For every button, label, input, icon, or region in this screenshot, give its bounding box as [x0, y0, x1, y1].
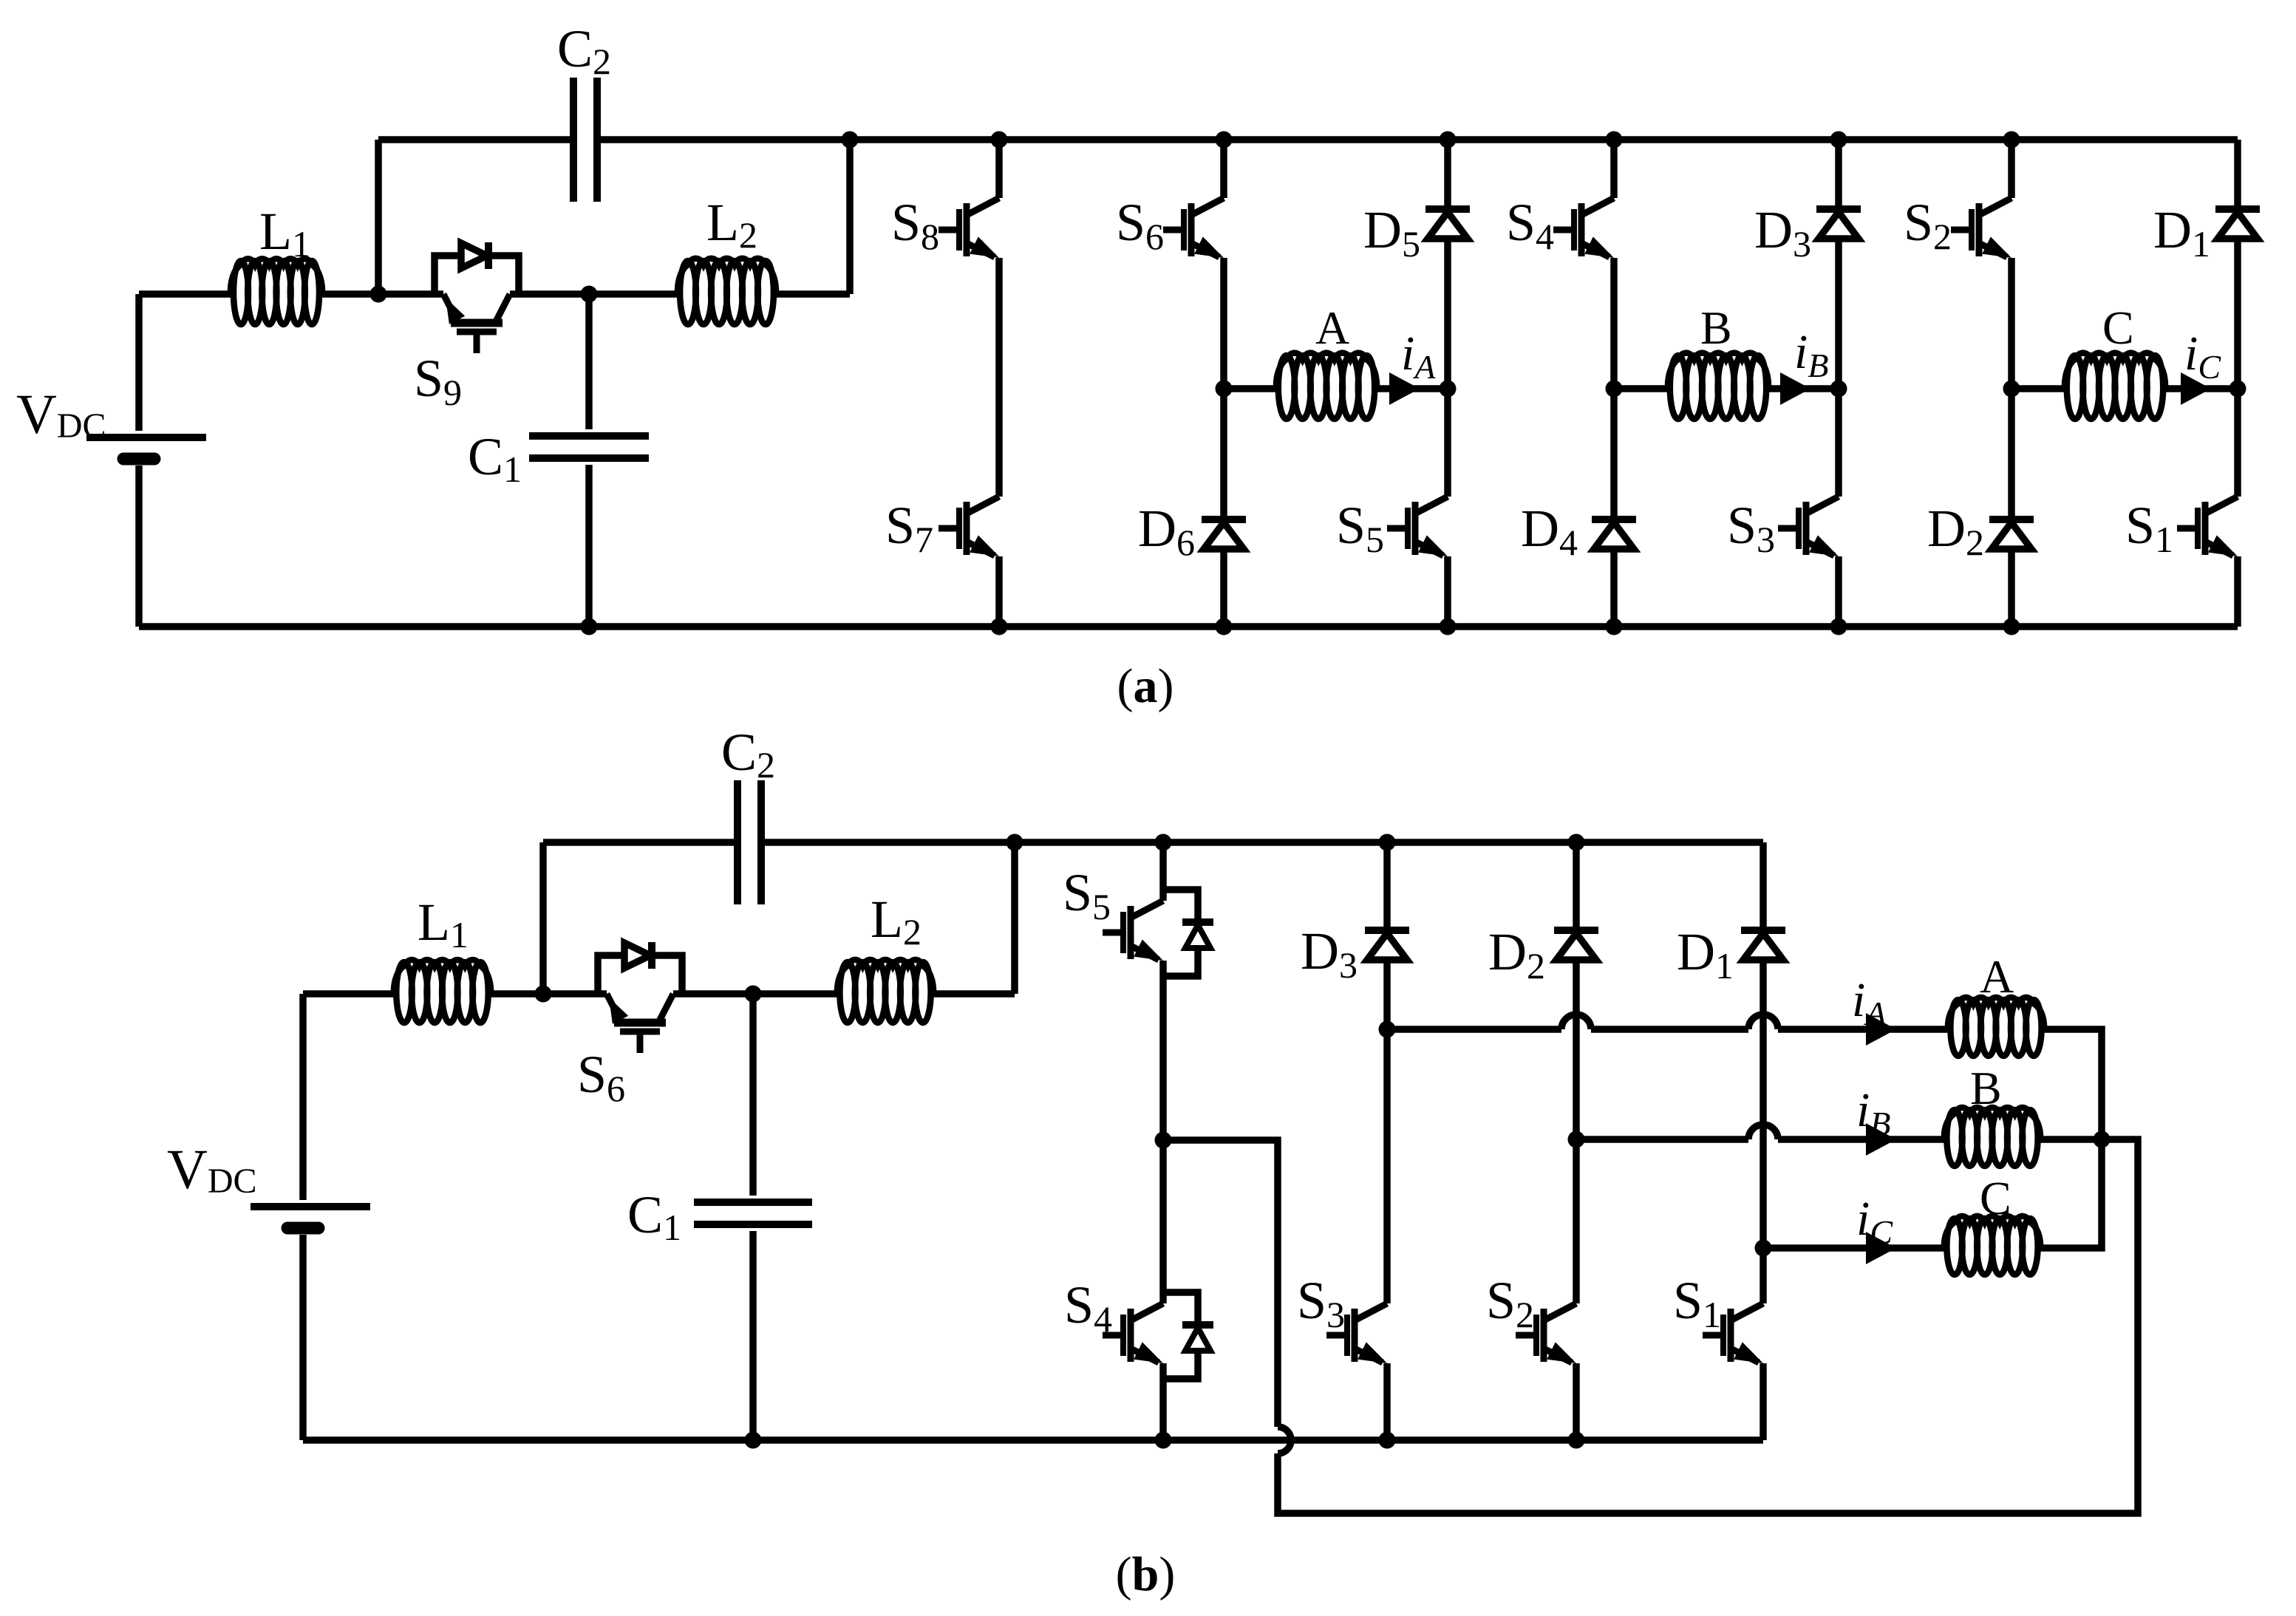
- wire: C2 left branch vertical: [375, 140, 382, 294]
- wire: mid rail L1 to S9: [322, 290, 443, 298]
- wire: return path bottom: [1278, 1139, 2138, 1513]
- wire: S4 emitter to bottom rail: [1159, 1363, 1167, 1440]
- wire: L2 to right branch: [776, 290, 850, 298]
- wire: phase A row: [1224, 385, 1448, 392]
- wire: leg D5/S5 segments: [1444, 140, 1451, 627]
- wire: phase C row: [2011, 385, 2238, 392]
- svg-text:A: A: [1980, 950, 2014, 1003]
- diode D3 (a): [1754, 200, 1861, 265]
- transistor S3 (b): [1297, 1271, 1387, 1363]
- node: S7 bottom rail: [991, 618, 1008, 635]
- node: S5 top bus: [1155, 834, 1172, 851]
- wire: figure (b) top bus: [543, 839, 1763, 846]
- wire: leg D3/S3 segments: [1835, 140, 1842, 627]
- transistor S1 (a): [2125, 496, 2238, 560]
- inductor L1 (b): [394, 893, 491, 1023]
- wire: leg D1/S1 segments: [2234, 140, 2241, 627]
- transistor S2: [1904, 193, 2011, 258]
- capacitor C1 (b): [627, 994, 812, 1440]
- wire: (b) L2 to right branch: [933, 990, 1015, 998]
- wire: phase B row with hop: [1576, 1125, 1944, 1139]
- node: phase common join: [2094, 1131, 2111, 1148]
- transistor S1 (b): [1673, 1271, 1763, 1363]
- node: S4 bottom rail: [1155, 1432, 1172, 1449]
- diode D1 (a): [2153, 200, 2260, 265]
- wire: phase B to common node: [2040, 1136, 2102, 1143]
- svg-text:C: C: [1980, 1172, 2011, 1224]
- wire: (b) mid rail L1 to S6: [491, 990, 607, 998]
- current arrow iB (b): [1856, 1083, 1896, 1156]
- node: phase C right: [2229, 381, 2246, 398]
- diode D6: [1138, 499, 1246, 563]
- node: S8 top bus: [991, 132, 1008, 149]
- diode D2 (a): [1927, 499, 2034, 563]
- wire: hop over bottom rail: [1278, 1427, 1291, 1453]
- current arrow iA: [1389, 327, 1436, 405]
- node: D6 bottom rail: [1216, 618, 1233, 635]
- transistor S8: [891, 193, 999, 258]
- inductor L2: [678, 193, 776, 324]
- node: phase C left: [2003, 381, 2020, 398]
- current arrow iB: [1780, 325, 1828, 405]
- node: (b) S6 / C1 junction: [745, 986, 762, 1003]
- diode of S5 (antiparallel): [1163, 890, 1213, 976]
- wire: S5 emitter to midpoint node: [1159, 961, 1167, 1140]
- transistor S4: [1506, 193, 1614, 258]
- capacitor C1: [468, 294, 649, 627]
- node: S6 top bus: [1216, 132, 1233, 149]
- inductor L1: [231, 202, 322, 324]
- diode D4: [1521, 499, 1636, 563]
- node: S3 bottom rail: [1379, 1432, 1396, 1449]
- phase winding B: [1668, 301, 1768, 419]
- phase winding A (b): [1948, 950, 2044, 1056]
- wire: midpoint branch to return: [1163, 1140, 1278, 1427]
- svg-text:(b): (b): [1116, 1547, 1176, 1601]
- node: (b) L1 / C2 branch junction: [535, 986, 552, 1003]
- node: phase A right: [1440, 381, 1457, 398]
- node: phase C tap: [1755, 1240, 1772, 1257]
- node: S5/S4 midpoint: [1155, 1132, 1172, 1149]
- node: phase B tap: [1568, 1131, 1585, 1148]
- wire: S5 leg from top bus: [1159, 842, 1167, 901]
- inductor L2 (b): [837, 890, 933, 1023]
- wire: leg D3/S3 segments: [1383, 842, 1391, 1440]
- phase winding B (b): [1944, 1062, 2040, 1166]
- wire: leg S4/D4 segments: [1610, 140, 1618, 627]
- svg-text:B: B: [1700, 301, 1732, 354]
- diode D3 (b): [1301, 921, 1409, 986]
- phase winding C: [2065, 301, 2165, 419]
- caption (b): [1116, 1547, 1176, 1601]
- wire: S4 collector wire: [1159, 1140, 1167, 1303]
- diode D2 (b): [1488, 922, 1598, 986]
- current arrow iA (b): [1852, 973, 1896, 1046]
- node: D5 top bus: [1440, 132, 1457, 149]
- node: S4 top bus: [1606, 132, 1623, 149]
- node: S3 bottom rail: [1830, 618, 1847, 635]
- node: S2 top bus: [2003, 132, 2020, 149]
- transistor S5 (b): [1063, 863, 1163, 961]
- wire: L2 (b) right branch vertical: [1011, 842, 1018, 994]
- wire: phase A return: [2044, 1029, 2102, 1139]
- battery VDC: [16, 294, 206, 627]
- wire: (b) mid rail left: [303, 990, 394, 998]
- node: D3 top bus: [1830, 132, 1847, 149]
- wire: figure (a) bottom rail: [139, 623, 2238, 630]
- node: phase A tap: [1379, 1021, 1396, 1038]
- svg-text:B: B: [1970, 1062, 2002, 1114]
- wire: figure (b) bottom rail: [303, 1436, 1763, 1444]
- transistor S5: [1336, 496, 1448, 560]
- transistor S4 (b): [1064, 1275, 1163, 1363]
- node: phase A left: [1216, 381, 1233, 398]
- node: (b) top bus / L2 branch: [1006, 834, 1023, 851]
- wire: phase C return: [2040, 1139, 2102, 1248]
- wire: phase C row: [1763, 1244, 1944, 1252]
- wire: mid rail left: [139, 290, 231, 298]
- diode of S4 (antiparallel): [1163, 1292, 1213, 1379]
- transistor S6: [1116, 193, 1224, 258]
- transistor S2 (b): [1486, 1271, 1576, 1363]
- node: S5 bottom rail: [1440, 618, 1457, 635]
- current arrow iC (b): [1856, 1192, 1896, 1264]
- node: D2 top bus: [1568, 834, 1585, 851]
- wire: leg D1/S1 segments: [1760, 842, 1767, 1440]
- wire: leg D2/S2 segments: [1573, 842, 1580, 1440]
- caption (a): [1117, 659, 1174, 713]
- node: S2 bottom rail: [1568, 1432, 1585, 1449]
- node: top bus / L2 branch: [842, 132, 859, 149]
- svg-text:C: C: [2102, 301, 2134, 354]
- transistor S3 (a): [1727, 496, 1839, 560]
- node: phase B left: [1606, 381, 1623, 398]
- wire: C2 right branch vertical: [846, 140, 854, 294]
- svg-text:A: A: [1315, 301, 1349, 354]
- diode D1 (b): [1677, 922, 1785, 986]
- wire: figure (a) top bus: [378, 136, 2238, 143]
- node: L1 / C2 branch junction: [370, 286, 387, 303]
- node: D2 bottom rail: [2003, 618, 2020, 635]
- node: D3 top bus: [1379, 834, 1396, 851]
- node: D4 bottom rail: [1606, 618, 1623, 635]
- transistor S6 (b) with antiparallel diode: [577, 942, 682, 1109]
- node: phase B right: [1830, 381, 1847, 398]
- node: C1 bottom rail junction: [581, 618, 598, 635]
- node: C1 (b) bottom rail junction: [745, 1432, 762, 1449]
- wire: phase B row: [1614, 385, 1839, 392]
- current arrow iC: [2181, 327, 2221, 405]
- wire: phase A row with hops: [1387, 1015, 1948, 1029]
- node: S9 / C1 junction: [581, 286, 598, 303]
- battery VDC (b): [167, 994, 370, 1440]
- capacitor C2 (b): [721, 723, 775, 904]
- capacitor C2: [557, 19, 611, 202]
- phase winding C (b): [1944, 1172, 2040, 1275]
- transistor S7: [885, 496, 999, 560]
- phase winding A: [1276, 301, 1377, 419]
- wire: mid rail S9 to L2: [510, 290, 678, 298]
- transistor S9 with antiparallel diode: [414, 242, 519, 413]
- wire: leg S8/S7 segments: [995, 140, 1003, 627]
- wire: leg S6/D6 segments: [1220, 140, 1227, 627]
- diode D5: [1363, 200, 1470, 265]
- wire: C2 (b) left branch vertical: [539, 842, 547, 994]
- wire: (b) mid rail S6 to L2: [673, 990, 837, 998]
- wire: leg S2/D2 segments: [2008, 140, 2015, 627]
- svg-text:(a): (a): [1117, 659, 1174, 713]
